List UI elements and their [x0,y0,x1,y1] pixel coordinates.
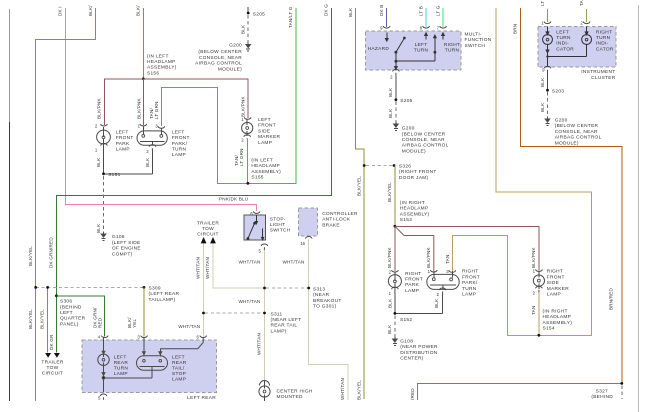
turn switch common [396,38,435,62]
svg-text:PARK: PARK [405,282,419,288]
svg-text:TURN: TURN [445,48,460,54]
svg-text:HEADLAMP: HEADLAMP [147,59,176,65]
wire DK GRN: from top, across page left, down left side [56,8,331,353]
svg-text:S152: S152 [400,317,412,323]
svg-text:FRONT: FRONT [116,135,134,141]
svg-text:AIRBAG CONTROL: AIRBAG CONTROL [402,143,449,149]
svg-text:RIGHT: RIGHT [444,42,460,48]
svg-text:CENTER HIGH: CENTER HIGH [277,388,313,394]
svg-text:HEADLAMP: HEADLAMP [251,163,280,169]
svg-text:S156: S156 [147,70,159,76]
pin 5 connector left rear bottom [100,394,107,400]
svg-text:TURN: TURN [414,48,429,54]
svg-text:(RIGHT FRONT: (RIGHT FRONT [399,169,437,175]
pin 1 connector left front side marker [244,117,251,119]
svg-text:MARKER: MARKER [258,134,280,140]
svg-text:LIGHT: LIGHT [270,222,286,228]
svg-text:BLK/YEL: BLK/YEL [28,309,33,329]
svg-text:BLK: BLK [540,77,545,87]
svg-text:BLK/PNK: BLK/PNK [97,97,102,119]
svg-text:S153: S153 [400,217,412,223]
svg-text:TO G301): TO G301) [313,304,337,310]
svg-text:SWITCH: SWITCH [465,43,486,49]
svg-text:FRONT: FRONT [547,274,565,280]
stop light switch box [244,215,266,240]
svg-text:WHT/TAN: WHT/TAN [283,259,305,264]
svg-text:LT G: LT G [540,0,545,6]
pin 2 connector left front park lamp [101,124,108,126]
svg-text:RIGHT: RIGHT [596,29,612,35]
svg-text:TAIL/: TAIL/ [172,366,185,372]
svg-text:S309: S309 [149,285,161,291]
svg-text:INDI-: INDI- [556,41,569,47]
svg-text:PARK: PARK [116,141,130,147]
ground G200 (center) [394,122,399,131]
lamp bulb LEFT REAR TURN LAMP [98,337,109,378]
svg-text:TURN: TURN [114,366,129,372]
svg-text:BLK/YEL: BLK/YEL [40,309,45,329]
svg-text:REAR: REAR [114,360,129,366]
svg-text:LEFT: LEFT [116,129,129,135]
svg-text:CONTROLLER: CONTROLLER [322,211,358,217]
ground G106 [101,232,106,241]
wire BLK/YEL from S309 to left rear tail/stop lamp pin 3 [143,287,145,336]
splice S153 dot [394,225,397,228]
left rear lamp box (dashed) [82,340,217,393]
svg-text:REAR TAIL: REAR TAIL [271,323,298,329]
svg-text:CENTER): CENTER) [400,356,423,362]
splice S311 dashed leader [205,312,263,314]
pin 7 connector MFS [440,26,447,28]
svg-text:WHT/TAN: WHT/TAN [196,257,201,279]
svg-text:INSTRUMENT: INSTRUMENT [581,69,615,75]
wire BLK park lamps to S151 [104,150,153,174]
wire DK GRN/RED branch to left rear turn lamp pin 4 [56,296,104,337]
ground G200 (left) [246,42,251,51]
svg-text:CIRCUIT: CIRCUIT [197,232,218,238]
svg-text:BLK: BLK [348,7,353,17]
svg-text:(BEHIND: (BEHIND [591,394,613,400]
wire LT BLU to MFS pin 8 [425,8,427,27]
svg-text:LT B: LT B [418,6,423,16]
splice S309 dashed leader with dots [36,286,144,288]
wire WHT/TAN trailer 2 down and right to junction [213,243,265,288]
splice S205 dot (center) [395,98,398,101]
svg-text:BLK: BLK [434,298,439,308]
svg-text:SIDE: SIDE [258,128,270,134]
svg-text:LEFT REAR: LEFT REAR [187,395,216,401]
svg-text:BLK/PNK: BLK/PNK [136,97,141,119]
svg-text:/RED: /RED [410,388,415,400]
connector CHMSL [260,381,270,386]
wire BLK/PNK drop to park/turn pin 1 [142,79,144,125]
svg-text:(NEAR: (NEAR [313,292,330,298]
svg-text:BLK/YEL: BLK/YEL [357,176,362,196]
ground G108 [393,337,398,346]
wire TAN from park/turn pin 3 up and right [452,8,591,335]
svg-text:AIRBAG CONTROL: AIRBAG CONTROL [195,61,242,67]
svg-text:TAILLAMP): TAILLAMP) [149,297,176,303]
svg-text:BLK/: BLK/ [136,5,141,16]
svg-text:DISTRIBUTION: DISTRIBUTION [400,350,437,356]
svg-text:G108: G108 [400,339,413,345]
pin 1 connector left front park/turn lamp [140,124,147,126]
svg-text:CIRCUIT: CIRCUIT [42,370,63,376]
svg-text:(LEFT SIDE: (LEFT SIDE [112,240,141,246]
svg-text:DK B: DK B [379,4,384,16]
svg-text:TURN: TURN [172,147,187,153]
svg-text:FRONT: FRONT [405,277,423,283]
svg-text:G200: G200 [555,118,568,124]
svg-text:LAMP): LAMP) [271,328,287,334]
MFS internals: pin stubs with arrows [385,33,444,71]
lamp bulb LEFT FRONT SIDE MARKER LAMP [242,122,253,133]
svg-text:DK G: DK G [324,4,329,16]
splice S154 dot [538,334,541,337]
svg-text:LAMP: LAMP [258,140,272,146]
junction dot WHT/TAN [263,287,266,290]
svg-text:COMPT): COMPT) [112,251,133,257]
lamp bulb CENTER HIGH MOUNTED stop lamp [259,386,270,397]
wire BRN: right side down, across, down to S327 [520,8,622,383]
svg-text:TURN: TURN [462,286,477,292]
svg-text:MODULE): MODULE) [555,140,579,146]
wire BRN/RED horizontal into S327 [418,383,622,400]
pin 2 connector park/turn bottom [439,288,446,294]
svg-text:BLK/PNK: BLK/PNK [531,246,536,268]
pin 6 connector left rear [200,336,207,338]
svg-text:(NEAR POWER: (NEAR POWER [400,344,438,350]
svg-text:S306: S306 [60,299,72,305]
lamp LEFT FRONT PARK/TURN LAMP (dual filament) [137,131,167,145]
wire WHT/TAN trailer 1 down to left rear pin 6 [203,243,205,336]
pin 9 connector cluster bottom [544,66,551,72]
svg-text:S155: S155 [251,175,263,181]
svg-text:BLK/YEL: BLK/YEL [357,380,362,400]
svg-text:LAMP: LAMP [172,152,186,158]
svg-text:HAZARD: HAZARD [368,46,390,52]
pin 2 connector side marker bottom [244,135,251,139]
svg-text:CONSOLE, NEAR: CONSOLE, NEAR [402,137,445,143]
svg-text:G106: G106 [112,234,125,240]
wire BLK cluster pin 9 to S203 [547,73,549,90]
lamp bulb RIGHT FRONT PARK LAMP [388,275,401,288]
svg-text:TOW: TOW [47,365,59,371]
pin 3 connector right front park/turn [449,270,456,272]
svg-text:BLK/PNK: BLK/PNK [387,246,392,268]
svg-text:BLK: BLK [540,102,545,112]
svg-text:LT GRN: LT GRN [154,101,159,119]
svg-text:LEFT: LEFT [556,29,569,35]
pin 9 connector MFS [383,26,390,28]
svg-text:AIRBAG CONTROL: AIRBAG CONTROL [555,135,602,141]
pin 1 connector right front park lamp [392,287,399,293]
svg-text:S205: S205 [253,11,265,17]
svg-text:PANEL): PANEL) [60,321,79,327]
hazard switch blade [395,51,397,53]
svg-text:(BELOW CENTER: (BELOW CENTER [198,49,242,55]
svg-text:LEFT: LEFT [60,310,73,316]
svg-text:OF ENGINE: OF ENGINE [112,246,141,252]
svg-text:BLK: BLK [145,157,150,167]
pin 4 connector left rear [102,336,109,338]
svg-text:(LEFT REAR: (LEFT REAR [149,291,180,297]
svg-text:BLK/YEL: BLK/YEL [387,182,392,202]
wire BLK dashed S151 to G106 [103,176,105,232]
pin 16 connector controller [305,237,312,241]
svg-text:FRONT: FRONT [258,123,276,129]
svg-text:MODULE): MODULE) [402,148,426,154]
svg-text:G200: G200 [402,126,415,132]
trailer tow arrow mid 2 [210,237,216,243]
wire BLK/PNK bus from S153 to right front park pin 2 and side marker pin 1 [395,226,539,271]
svg-text:G200: G200 [229,43,242,49]
svg-text:HEADLAMP: HEADLAMP [543,314,572,320]
svg-text:WHT/TAN: WHT/TAN [340,378,345,400]
svg-text:LT G: LT G [435,5,440,16]
wire BLK/PNK diagonal branch to park/turn pin 1 [395,226,434,271]
wire TAN side marker pin 2 down to S154 [538,293,540,336]
splice S203 dot [546,89,549,92]
wire BLK dashed S205 to G200 [395,102,397,122]
svg-text:BRN: BRN [513,24,518,34]
wire TAN to cluster pin 2 [586,9,588,22]
dashed below S327 [621,386,623,400]
wire LT GRN to MFS pin 7 [442,8,444,27]
svg-text:BLK/YEL: BLK/YEL [28,246,33,266]
wire BLK right front lamps to S152 [395,294,443,314]
pin 2 connector cluster [583,22,590,24]
pin 1 connector left front park lamp [101,144,108,150]
svg-text:PARK/: PARK/ [462,280,478,286]
pin 1 connector right front park/turn [431,270,438,272]
wire BLK dashed S203 to G200 right [547,92,549,117]
svg-text:SIDE: SIDE [547,280,559,286]
svg-text:LEFT: LEFT [172,129,185,135]
svg-text:BREAKOUT: BREAKOUT [313,298,342,304]
splice S155 dot [247,182,250,185]
splice S326 dots and dashed leader [363,164,366,167]
svg-text:DK I: DK I [58,6,63,16]
svg-text:CATOR: CATOR [596,46,614,52]
wire BLK MFS pin 2 to S205 [395,76,397,100]
pin 3 connector left front park/turn lamp [158,126,165,128]
splice S205 dot (left) [247,12,250,15]
svg-text:RED: RED [97,317,102,328]
pin 6 connector stop light switch [253,211,259,213]
svg-text:BLK: BLK [96,223,101,233]
pin 2 connector park/turn bottom [149,145,156,151]
svg-text:FUNCTION: FUNCTION [465,37,492,43]
svg-text:CONSOLE, NEAR: CONSOLE, NEAR [199,55,242,61]
svg-text:FRONT: FRONT [172,135,190,141]
svg-text:(BELOW CENTER: (BELOW CENTER [555,123,599,129]
svg-text:LAMP: LAMP [405,288,419,294]
svg-text:DOOR JAM): DOOR JAM) [399,175,429,181]
splice S327 dot [620,382,623,385]
svg-text:LAMP: LAMP [114,371,128,377]
pin 1 connector cluster [544,22,551,24]
svg-text:ASSEMBLY): ASSEMBLY) [147,65,177,71]
lamp RIGHT FRONT PARK/TURN LAMP (dual filament) [427,274,459,289]
svg-text:DK GRN/RED: DK GRN/RED [48,237,53,268]
wire WHT/TAN stop light switch pin5 down to CHMSL [264,250,266,381]
lamp bulb LEFT FRONT PARK LAMP [97,130,111,144]
svg-text:TRAILER: TRAILER [41,359,63,365]
svg-text:BRN/RED: BRN/RED [609,287,614,310]
svg-text:LAMP: LAMP [116,147,130,153]
svg-text:MULTI-: MULTI- [465,32,482,38]
svg-text:16: 16 [300,241,305,246]
trailer tow arrow left 1 [45,353,51,358]
wire BLK/PNK bus from S156 [104,79,248,125]
svg-text:CATOR: CATOR [556,46,574,52]
svg-text:MARKER: MARKER [547,286,569,292]
svg-text:LEFT: LEFT [415,42,428,48]
svg-text:WHT/TAN: WHT/TAN [239,259,261,264]
svg-text:TRAILER: TRAILER [197,221,219,227]
wire BLK/YEL from top via jog to bottom (S326 line) [356,8,365,399]
svg-text:MOUNTED: MOUNTED [277,394,303,400]
svg-text:RIGHT: RIGHT [462,269,478,275]
svg-text:PARK/: PARK/ [172,141,188,147]
wire BLK/YEL left: top vertical, jog left, down full page [35,8,95,401]
svg-text:SWITCH: SWITCH [270,228,291,234]
splice S306 dot on DK GRN [55,294,58,297]
stop light switch internals [247,215,264,240]
svg-text:WHT/TAN: WHT/TAN [239,299,261,304]
svg-text:TAN/LT G: TAN/LT G [288,6,293,28]
svg-text:WHT/TAN: WHT/TAN [205,257,210,279]
wire BLK far-left vertical [9,9,11,122]
svg-text:CLUSTER: CLUSTER [591,75,616,81]
svg-text:(IN LEFT: (IN LEFT [251,158,273,164]
svg-text:YEL: YEL [132,318,137,328]
svg-text:INDI-: INDI- [596,41,609,47]
svg-text:S327: S327 [596,389,608,395]
pin 1 connector right front side marker [536,269,543,271]
lamp bulb RIGHT FRONT SIDE MARKER LAMP [533,275,544,286]
svg-text:S313: S313 [313,286,325,292]
wire LT GRN to cluster pin 1 [547,9,549,22]
wire WHT/TAN controller pin16 down, jog right, to bottom [309,240,348,400]
wire BLK/YEL branch from S309 splice to trailer tow arrow [47,287,49,352]
wire BLK dashed S205 to G200 left [247,15,249,42]
wire BLK dashed S152 to G108 [394,316,396,337]
svg-text:S326: S326 [399,164,411,170]
svg-text:(IN LEFT: (IN LEFT [147,53,169,59]
pin 2 connector right front park lamp [392,270,399,272]
svg-text:BLK/: BLK/ [88,5,93,16]
lamp LEFT REAR TAIL/STOP LAMP (dual filament) [102,337,203,392]
svg-text:BLK: BLK [241,24,246,34]
page border right [638,5,640,412]
svg-text:QUARTER: QUARTER [60,316,86,322]
svg-text:DK GR: DK GR [49,334,54,350]
svg-text:HEADLAMP: HEADLAMP [400,206,429,212]
svg-text:ASSEMBLY): ASSEMBLY) [400,211,430,217]
wire BLK/YEL S326 to S153 [394,166,396,227]
right turn indicator bulb [548,27,592,68]
svg-text:LEFT: LEFT [258,117,271,123]
svg-text:(IN RIGHT: (IN RIGHT [543,308,568,314]
svg-text:WHT/TAN: WHT/TAN [257,333,262,355]
svg-text:S203: S203 [552,88,564,94]
svg-text:TURN: TURN [596,35,611,41]
svg-text:TOW: TOW [202,226,214,232]
svg-text:CONSOLE, NEAR: CONSOLE, NEAR [555,129,598,135]
svg-text:STOP: STOP [172,371,186,377]
left turn indicator bulb [543,27,553,57]
svg-text:ANTI-LOCK: ANTI-LOCK [322,217,351,223]
svg-text:TAN: TAN [445,255,450,264]
svg-text:BLK/PNK: BLK/PNK [426,246,431,268]
svg-text:ASSEMBLY): ASSEMBLY) [543,320,573,326]
svg-text:RIGHT: RIGHT [405,271,421,277]
svg-text:LAMP: LAMP [172,377,186,383]
svg-text:BLK: BLK [387,324,392,334]
svg-text:ASSEMBLY): ASSEMBLY) [251,169,281,175]
splice S313 dashed leader [266,287,309,289]
svg-text:LEFT: LEFT [172,355,185,361]
pin 8 connector MFS [423,26,430,28]
svg-text:S205: S205 [400,98,412,104]
svg-text:BLK: BLK [388,108,393,118]
svg-text:S311: S311 [271,311,283,317]
svg-text:TAN: TAN [531,306,536,315]
svg-text:S151: S151 [108,172,120,178]
ground G200 (right) [545,117,550,126]
svg-text:BLK/PNK: BLK/PNK [240,95,245,117]
svg-text:BLK: BLK [388,298,393,308]
svg-text:RIGHT: RIGHT [547,269,563,275]
svg-text:REAR: REAR [172,360,187,366]
svg-text:STOP-: STOP- [270,216,286,222]
trailer tow arrow mid 1 [201,237,207,243]
wire TAN/LT GRN side marker pin 2 drop [247,139,249,183]
svg-text:LAMP: LAMP [547,292,561,298]
wire BLK/YEL feed to S156 (from top) [142,8,144,79]
pin 3 connector left rear [141,336,148,338]
svg-text:WHT/TAN: WHT/TAN [178,324,200,329]
pin 5 connector stop light switch [261,244,267,250]
svg-text:PNK/DK BLU: PNK/DK BLU [219,197,248,202]
svg-text:BRAKE: BRAKE [322,222,340,228]
multi-function switch box (dashed) [366,31,461,70]
svg-text:(BELOW CENTER: (BELOW CENTER [402,131,446,137]
pin 2 connector side marker bottom [536,286,543,292]
svg-text:MODULE): MODULE) [218,66,242,72]
pin 2 connector MFS bottom [393,69,400,75]
svg-text:TURN: TURN [556,35,571,41]
splice S156 dot [142,77,145,80]
wire TAN/LT GRN loop: pin3 up, over, down, S155 bus, up to top [161,8,296,183]
svg-text:LEFT: LEFT [114,355,127,361]
svg-text:S154: S154 [543,326,555,332]
svg-text:(BEHIND: (BEHIND [60,304,82,310]
svg-text:BLK: BLK [96,157,101,167]
wire PNK/DK BLU: left vertical, across to stop light switch [65,8,256,211]
svg-text:LT GRN: LT GRN [239,148,244,166]
splice S151 dot [102,172,105,175]
svg-text:LAMP: LAMP [462,292,476,298]
instrument cluster box (dashed) [538,27,616,68]
controller anti-lock brake box (dashed) [299,208,318,236]
wire stub BLK to S205 left [247,7,249,12]
trailer tow arrow left 2 [54,353,60,358]
svg-text:(NEAR LEFT: (NEAR LEFT [271,317,302,323]
wire DK BLU to MFS pin 9 [386,8,388,27]
